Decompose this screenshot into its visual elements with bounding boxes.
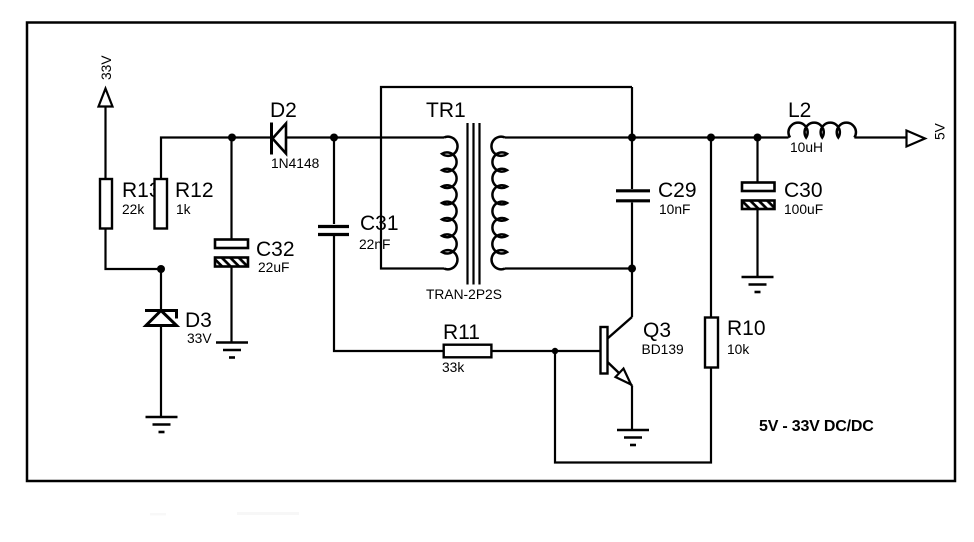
node secondary/C29/collector [628,265,636,273]
svg-text:10nF: 10nF [659,202,690,217]
svg-text:Q3: Q3 [643,319,671,342]
svg-text:22uF: 22uF [258,260,289,275]
emitter arrowhead [616,369,632,385]
svg-text:TR1: TR1 [426,99,466,122]
node R12/R13/D3 [157,265,165,273]
wire C32 top lead [230,138,232,240]
svg-text:33k: 33k [442,360,464,375]
wire R10 bottom to base node [555,351,711,463]
capacitor C32 [215,238,295,275]
wire emitter to ground [631,386,633,430]
wire D3 to ground [160,327,162,416]
svg-text:5V - 33V DC/DC: 5V - 33V DC/DC [759,418,874,435]
svg-text:C30: C30 [784,179,823,202]
wire bus node C32 [228,134,236,142]
wire C30 to ground [756,209,758,276]
svg-text:10k: 10k [727,342,749,357]
wire secondary bottom to C29 node [505,267,632,269]
node C30/bus [754,134,762,142]
svg-text:L2: L2 [788,99,811,122]
svg-text:R12: R12 [175,179,214,202]
svg-text:C32: C32 [256,238,295,261]
svg-text:TRAN-2P2S: TRAN-2P2S [426,287,502,302]
ground under Q3 [617,430,649,445]
svg-text:33V: 33V [187,331,212,346]
ground under C32 [216,343,248,358]
svg-text:33V: 33V [99,55,114,80]
transistor Q3 [601,317,685,386]
capacitor C30 [742,179,823,217]
collector lead [608,317,633,339]
wire C31 top lead [333,138,335,225]
primary winding [442,137,458,270]
svg-text:22nF: 22nF [359,237,390,252]
wire R11 to base [491,350,600,352]
svg-text:C29: C29 [658,179,697,202]
svg-text:100uF: 100uF [784,202,823,217]
node base/R10 [552,348,558,354]
capacitor C31 [318,212,399,252]
capacitor C29 [616,179,697,217]
resistor R10 [705,317,766,368]
diode D2 [270,99,320,171]
resistor R13 [100,179,161,229]
wire D2 to C31 node [286,136,334,138]
svg-text:10uH: 10uH [790,140,823,155]
wire C32 to ground [230,267,232,343]
resistor R11 [442,321,491,375]
ground under D3 [146,417,178,432]
wire R12 top to bus [161,138,271,180]
svg-text:D2: D2 [270,99,297,122]
wire R13 bottom to node [106,229,162,270]
wire R10 top lead [710,138,712,318]
inductor L2 [788,99,856,155]
svg-text:D3: D3 [185,309,212,332]
wire L2 to output [854,136,907,138]
svg-text:22k: 22k [122,202,144,217]
node R10/bus [707,134,715,142]
svg-text:R10: R10 [727,317,766,340]
wire C29 bottom to collector [631,203,633,318]
node transformer/bus [628,134,636,142]
secondary winding [491,137,507,270]
wire C30 top lead [756,138,758,183]
svg-text:R11: R11 [443,321,480,344]
zener diode D3 [145,309,212,346]
output flag 5V [907,122,948,146]
ground under C30 [742,277,774,292]
wire bus to primary [334,136,444,138]
resistor R12 [155,179,214,229]
node C31 [330,134,338,142]
svg-text:C31: C31 [360,212,399,235]
svg-text:1k: 1k [176,202,191,217]
wire C31 bottom to R11 [334,236,444,351]
svg-text:1N4148: 1N4148 [271,156,320,171]
wire R12 bottom to D3 [160,269,162,310]
svg-text:5V: 5V [933,122,948,140]
power flag 33V [99,55,115,179]
svg-text:BD139: BD139 [642,342,685,357]
emitter lead [608,362,633,386]
wire secondary top to bus [505,136,789,138]
transformer TR1 [381,87,632,302]
core [466,123,468,285]
wire C29 branch upper [631,87,633,189]
primary feedback loop wire (left/top of box) [381,87,632,269]
